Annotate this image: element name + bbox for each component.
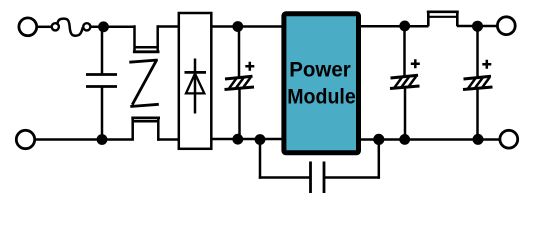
svg-text:Power: Power [289,58,351,82]
svg-text:Module: Module [287,84,356,108]
